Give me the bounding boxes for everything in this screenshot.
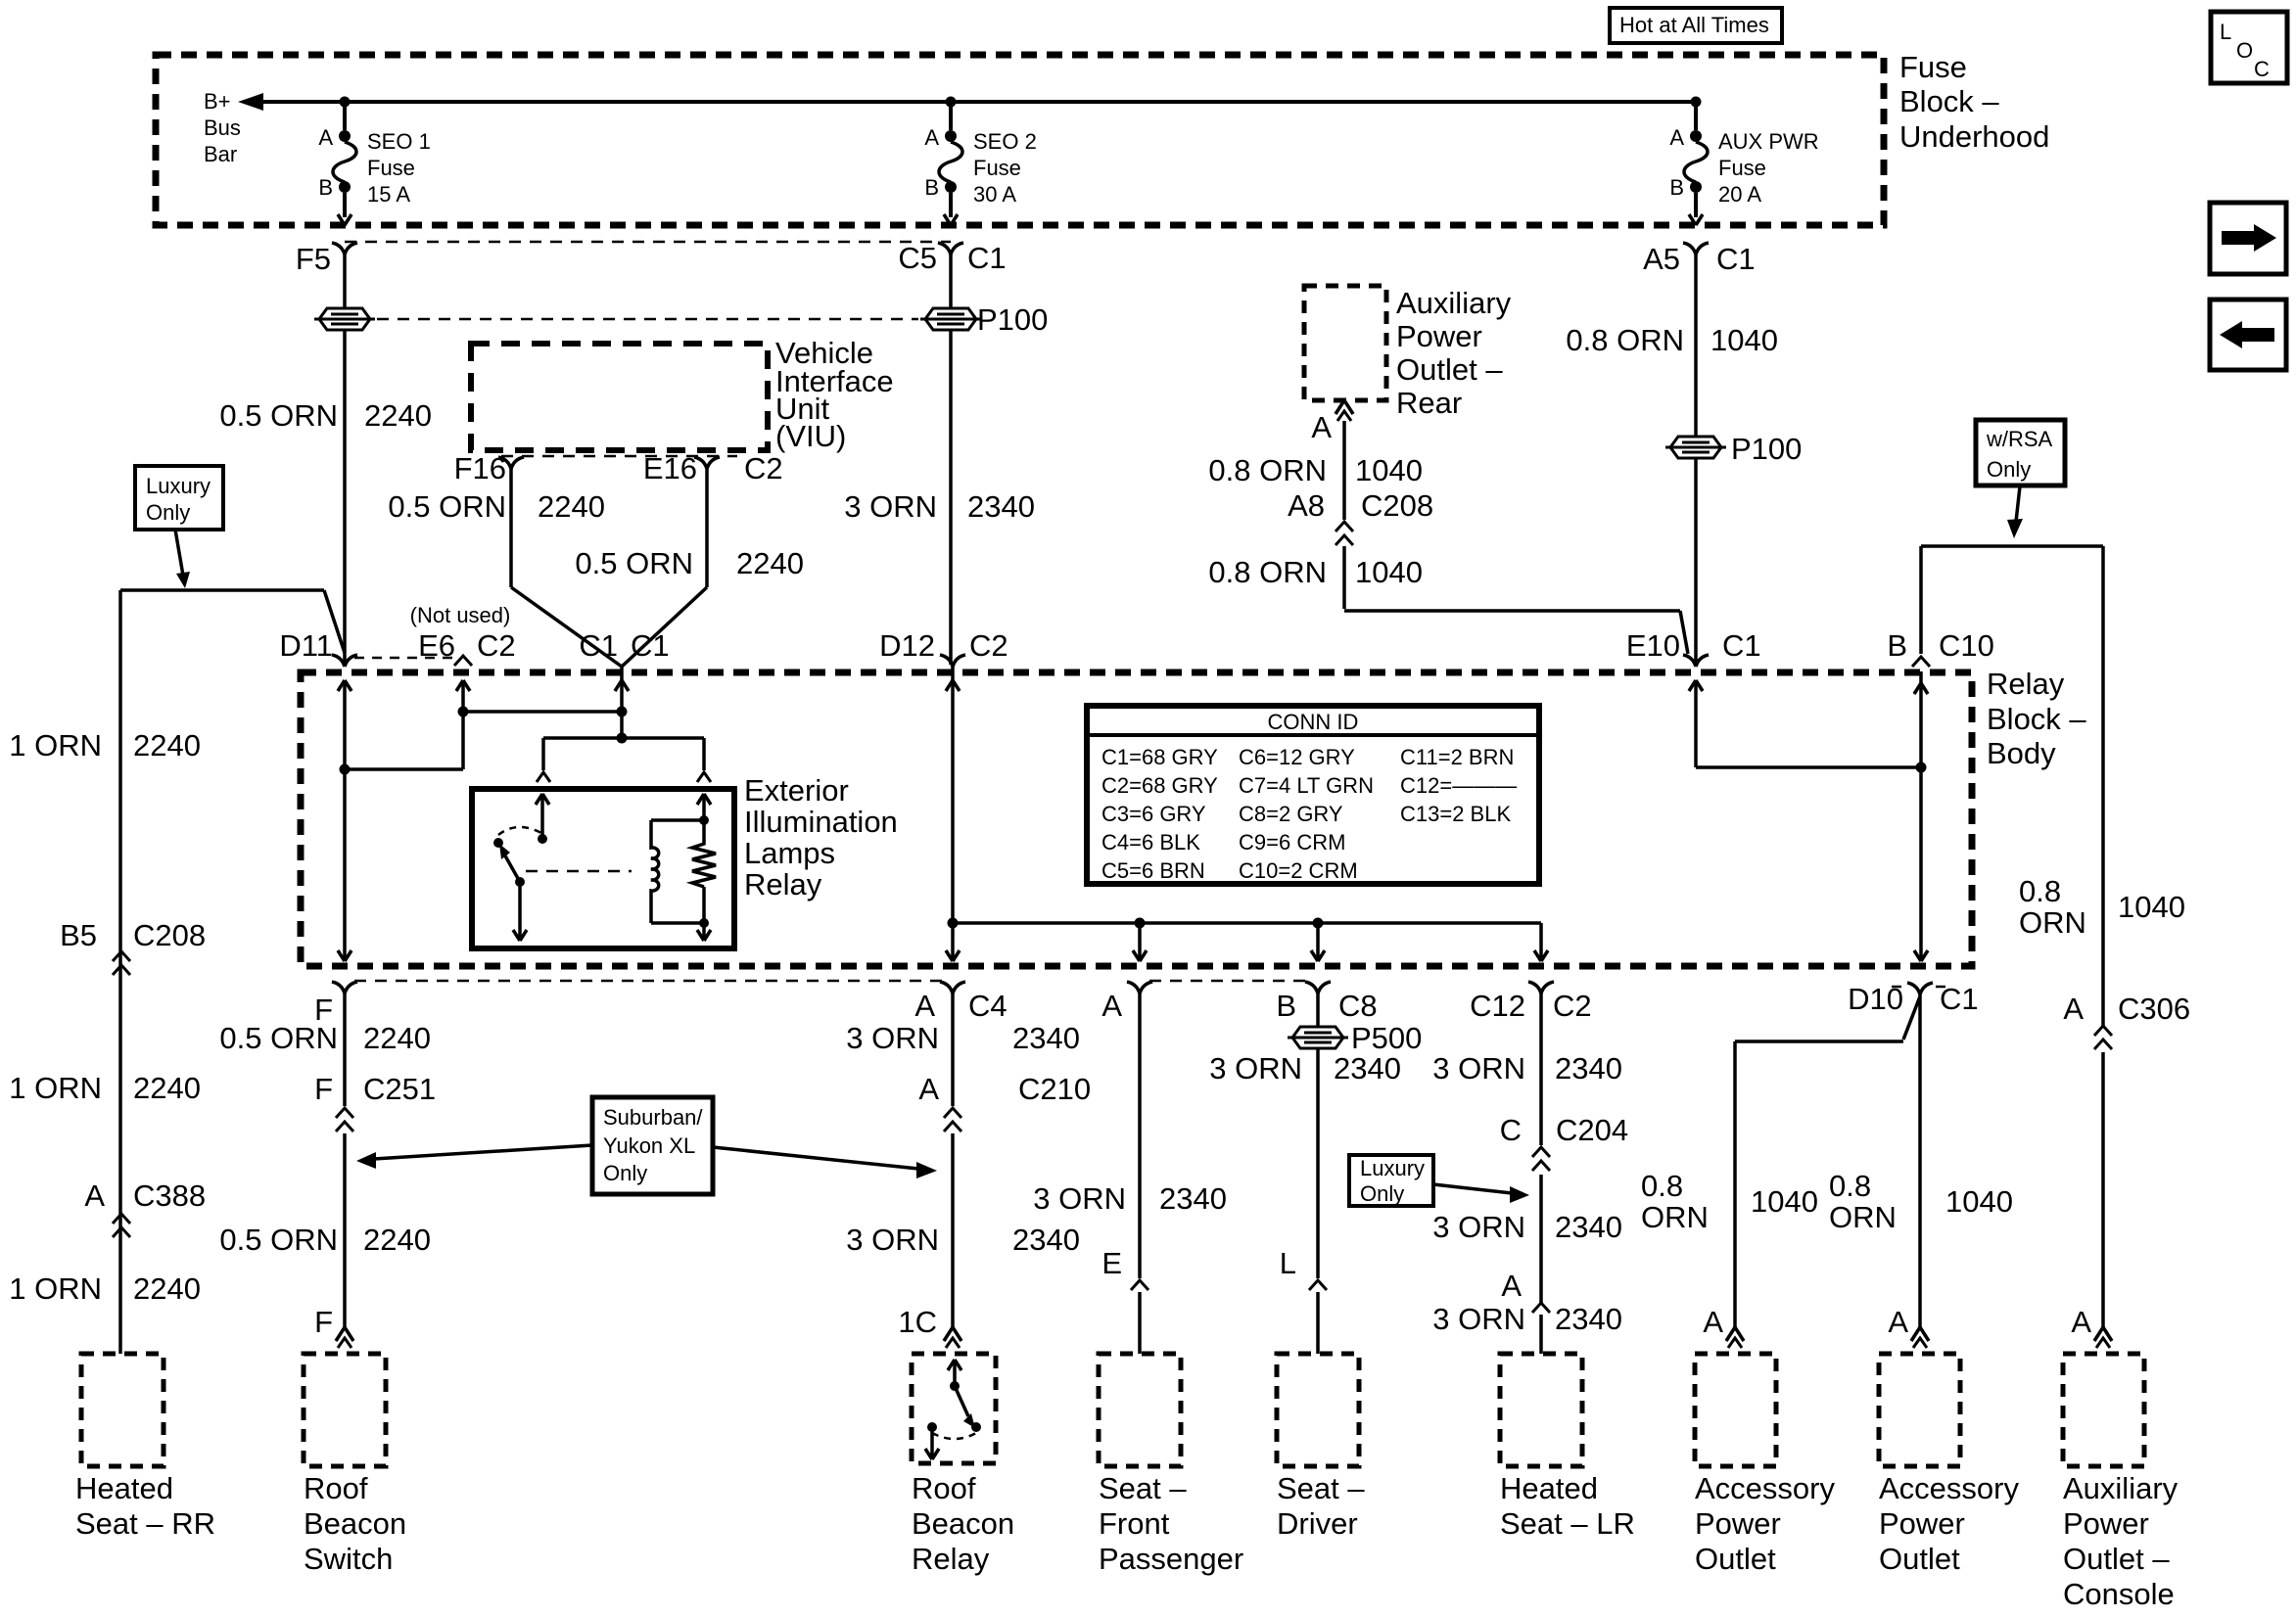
svg-text:A: A	[1501, 1269, 1522, 1303]
svg-text:CONN ID: CONN ID	[1268, 710, 1359, 734]
junction coil top	[699, 815, 709, 825]
pin arrow B C10 (up)	[1914, 683, 1928, 694]
junction on bus at SEO 2	[946, 97, 957, 108]
connector pin 1C (roof beacon relay)	[898, 1305, 961, 1348]
svg-text:C2: C2	[1553, 989, 1592, 1023]
svg-text:F5: F5	[296, 242, 331, 276]
svg-text:3 ORN: 3 ORN	[1033, 1181, 1126, 1216]
connector F5 C1	[296, 242, 357, 276]
label Accessory Power Outlet 1	[1695, 1471, 1835, 1576]
svg-text:1040: 1040	[1945, 1184, 2013, 1219]
roof beacon relay travel arc	[932, 1433, 976, 1439]
connector pin A (outlet 2)	[1888, 1305, 1929, 1348]
svg-text:E10: E10	[1626, 628, 1680, 663]
label Auxiliary Power Outlet - Rear	[1396, 286, 1512, 420]
connector face line (bottom row left)	[354, 980, 943, 983]
svg-text:P100: P100	[977, 302, 1048, 337]
relay pin 2 rail	[697, 794, 711, 941]
svg-text:C12=———: C12=———	[1400, 773, 1517, 798]
svg-text:20 A: 20 A	[1718, 182, 1761, 207]
wire C5 to P100	[949, 254, 953, 308]
svg-text:Heated: Heated	[75, 1471, 173, 1505]
svg-text:C5=6 BRN: C5=6 BRN	[1101, 858, 1205, 883]
svg-text:Relay: Relay	[912, 1542, 990, 1576]
connector pin A (console outlet)	[2071, 1305, 2112, 1348]
svg-text:Yukon XL: Yukon XL	[603, 1133, 695, 1158]
svg-text:B: B	[318, 175, 333, 200]
svg-text:A: A	[2071, 1305, 2091, 1339]
connector P100 (left)	[314, 308, 375, 330]
connector F C251	[314, 1072, 436, 1132]
svg-text:C3=6 GRY: C3=6 GRY	[1101, 802, 1206, 826]
svg-text:2240: 2240	[538, 489, 605, 524]
LOC reference box	[2211, 12, 2287, 83]
svg-text:B: B	[924, 175, 939, 200]
svg-text:Relay: Relay	[1987, 667, 2065, 701]
svg-text:Suburban/: Suburban/	[603, 1105, 703, 1130]
svg-text:Power: Power	[1396, 319, 1482, 353]
label Roof Beacon Relay	[912, 1471, 1014, 1576]
svg-text:Rear: Rear	[1396, 386, 1462, 420]
relay switch common pin	[536, 794, 549, 844]
connector P500	[1288, 1021, 1422, 1055]
svg-text:C1: C1	[1716, 242, 1756, 276]
wire C210 3 ORN 2340 (lower)	[846, 1133, 1080, 1327]
svg-text:3 ORN: 3 ORN	[844, 489, 937, 524]
svg-text:0.5 ORN: 0.5 ORN	[219, 1021, 338, 1055]
connector A C4	[914, 982, 1007, 1023]
svg-text:0.5 ORN: 0.5 ORN	[388, 489, 506, 524]
svg-text:C2=68 GRY: C2=68 GRY	[1101, 773, 1218, 798]
svg-text:C9=6 CRM: C9=6 CRM	[1239, 830, 1345, 855]
svg-text:0.5 ORN: 0.5 ORN	[575, 546, 693, 580]
junction on bus at AUX PWR	[1691, 97, 1702, 108]
svg-text:0.8 ORN: 0.8 ORN	[1566, 323, 1684, 357]
svg-text:2240: 2240	[133, 728, 201, 762]
relay switch travel arc	[498, 827, 541, 835]
component Accessory Power Outlet 2 (dashed box)	[1879, 1354, 1960, 1466]
connector A8 C208	[1288, 488, 1433, 545]
svg-text:F: F	[314, 1072, 333, 1106]
junction D11 branch	[340, 764, 351, 775]
svg-text:Outlet –: Outlet –	[1396, 352, 1503, 387]
wire heated seat RR feed 1 ORN 2240 (upper)	[9, 590, 201, 1354]
fuse SEO 2 30 A	[924, 102, 1037, 225]
connector D10 C1	[1848, 982, 1979, 1016]
svg-text:C208: C208	[133, 918, 206, 952]
svg-text:2240: 2240	[736, 546, 804, 580]
roof beacon relay contact right	[971, 1422, 981, 1432]
label Vehicle Interface Unit (VIU)	[775, 336, 894, 453]
vehicle interface unit VIU (dashed box)	[471, 344, 768, 450]
svg-text:15 A: 15 A	[367, 182, 410, 207]
svg-text:Only: Only	[603, 1161, 647, 1185]
svg-text:30 A: 30 A	[973, 182, 1016, 207]
svg-text:0.5 ORN: 0.5 ORN	[219, 1223, 338, 1257]
svg-text:A: A	[1888, 1305, 1908, 1339]
svg-text:C4=6 BLK: C4=6 BLK	[1101, 830, 1200, 855]
svg-text:Exterior: Exterior	[744, 773, 849, 808]
connector pin F (roof beacon switch)	[314, 1305, 353, 1348]
svg-text:F16: F16	[454, 451, 506, 485]
svg-text:D12: D12	[879, 628, 935, 663]
svg-text:C8=2 GRY: C8=2 GRY	[1239, 802, 1343, 826]
arrow from Luxury Only	[175, 530, 190, 588]
svg-text:C6=12 GRY: C6=12 GRY	[1239, 745, 1355, 769]
svg-text:Outlet: Outlet	[1879, 1542, 1960, 1576]
svg-text:C2: C2	[969, 628, 1008, 663]
wire distribution bus	[953, 921, 1541, 925]
svg-text:F: F	[314, 1305, 333, 1339]
roof beacon relay switch common	[948, 1360, 961, 1391]
svg-text:L: L	[1280, 1246, 1296, 1280]
svg-text:O: O	[2236, 38, 2253, 63]
connector F (roof beacon sw)	[314, 982, 357, 1027]
component Accessory Power Outlet 1 (dashed box)	[1695, 1354, 1776, 1466]
component Roof Beacon Relay (dashed box)	[912, 1354, 996, 1463]
label Relay Block - Body	[1987, 667, 2086, 770]
component Auxiliary Power Outlet - Rear (dashed box)	[1304, 286, 1386, 400]
svg-text:Power: Power	[1695, 1506, 1781, 1541]
wire A 3 ORN 2340 (seat front pass)	[1033, 993, 1227, 1278]
svg-text:3 ORN: 3 ORN	[1209, 1051, 1302, 1086]
svg-text:C388: C388	[133, 1178, 206, 1213]
svg-text:B: B	[1276, 989, 1296, 1023]
wire B C10 rail	[1914, 671, 1928, 961]
label Luxury Only (right)	[1349, 1155, 1433, 1206]
junction B C10 rail	[1916, 762, 1927, 773]
connector pin A (heated seat LR)	[1501, 1269, 1550, 1313]
svg-text:1040: 1040	[1355, 555, 1423, 589]
junction coil bottom	[699, 918, 709, 928]
fuse SEO 1 15 A	[318, 102, 431, 225]
svg-text:Auxiliary: Auxiliary	[1396, 286, 1512, 320]
label Seat - Front Passenger	[1099, 1471, 1243, 1576]
junction drop A (seat front passenger)	[1135, 918, 1146, 929]
svg-text:B+: B+	[204, 89, 231, 114]
junction on bus at SEO 1	[340, 97, 351, 108]
svg-text:3 ORN: 3 ORN	[1432, 1210, 1525, 1244]
svg-text:2240: 2240	[364, 398, 432, 433]
connector face line (bottom row mid)	[1149, 980, 1308, 983]
svg-text:1040: 1040	[1355, 453, 1423, 487]
svg-text:2340: 2340	[967, 489, 1035, 524]
svg-text:Switch: Switch	[304, 1542, 393, 1576]
svg-text:Fuse: Fuse	[367, 156, 415, 180]
pin arrow D11 (up)	[338, 680, 351, 691]
label Roof Beacon Switch	[304, 1471, 406, 1576]
svg-text:C: C	[2254, 57, 2270, 81]
svg-text:Body: Body	[1987, 736, 2056, 770]
component Auxiliary Power Outlet - Console (dashed box)	[2063, 1354, 2144, 1466]
page arrow left box	[2210, 300, 2286, 370]
svg-text:E16: E16	[643, 451, 697, 485]
svg-text:Fuse: Fuse	[973, 156, 1021, 180]
svg-text:B: B	[1887, 628, 1907, 663]
arrow to roof beacon relay wire	[713, 1147, 937, 1178]
wire aux rear 0.8 ORN 1040 (upper)	[1208, 421, 1423, 520]
roof beacon relay contact left	[927, 1422, 937, 1432]
connector P100 (right)	[920, 302, 1048, 337]
svg-text:A: A	[914, 989, 935, 1023]
connector pin E (seat front pass)	[1101, 1246, 1148, 1290]
label Accessory Power Outlet 2	[1879, 1471, 2019, 1576]
svg-text:Beacon: Beacon	[304, 1506, 406, 1541]
svg-text:1 ORN: 1 ORN	[9, 728, 102, 762]
wire C306 to console outlet	[2101, 1052, 2105, 1329]
fuse AUX PWR 20 A	[1669, 102, 1818, 225]
label Hot at All Times	[1610, 8, 1782, 43]
connector E10 C1	[1626, 628, 1761, 667]
connector D11 C2	[279, 628, 357, 667]
component Seat - Driver (dashed box)	[1277, 1354, 1359, 1466]
wire F5 to P100	[343, 254, 347, 308]
wire P500 3 ORN 2340	[1209, 1048, 1401, 1278]
wire P100 to E10	[1694, 458, 1698, 665]
label Exterior Illumination Lamps Relay	[744, 773, 898, 901]
svg-text:Bus: Bus	[204, 115, 241, 140]
junction E6 crosslink	[458, 707, 469, 717]
junction C1 split	[617, 733, 628, 744]
connector P100 (aux pwr)	[1665, 432, 1802, 466]
svg-text:2340: 2340	[1012, 1223, 1080, 1257]
svg-text:C4: C4	[968, 989, 1007, 1023]
wire drop to C12 C2	[1534, 923, 1548, 961]
svg-text:Outlet: Outlet	[1695, 1542, 1776, 1576]
wire D10 jog to outlet 1	[1735, 996, 1920, 1041]
junction D12 distribution	[948, 918, 959, 929]
connector caret relay pin 2	[697, 772, 711, 782]
label Suburban/Yukon XL Only	[592, 1097, 713, 1194]
connector E16 C2	[643, 451, 783, 485]
svg-text:ORN: ORN	[2019, 905, 2086, 940]
relay switch blade	[499, 844, 525, 887]
svg-text:C1: C1	[1940, 982, 1979, 1016]
svg-text:P100: P100	[1731, 432, 1802, 466]
svg-text:Accessory: Accessory	[1879, 1471, 2019, 1505]
relay block - body (dashed enclosure)	[301, 672, 1972, 966]
connector B C8	[1276, 982, 1377, 1023]
connector C C204	[1500, 1113, 1629, 1171]
svg-text:2340: 2340	[1334, 1051, 1401, 1086]
svg-text:C2: C2	[744, 451, 783, 485]
label Luxury Only (left)	[135, 466, 223, 530]
svg-text:Fuse: Fuse	[1899, 50, 1967, 84]
svg-text:1C: 1C	[898, 1305, 937, 1339]
svg-text:Auxiliary: Auxiliary	[2063, 1471, 2179, 1505]
connector face line C2 fragment	[354, 657, 452, 660]
svg-text:2340: 2340	[1555, 1302, 1622, 1336]
wire E to seat front pass	[1138, 1292, 1142, 1354]
svg-text:Roof: Roof	[912, 1471, 976, 1505]
svg-text:Roof: Roof	[304, 1471, 368, 1505]
svg-text:2340: 2340	[1012, 1021, 1080, 1055]
svg-text:C: C	[1500, 1113, 1522, 1147]
svg-text:Heated: Heated	[1500, 1471, 1598, 1505]
svg-text:Bar: Bar	[204, 142, 237, 166]
svg-text:C1: C1	[579, 628, 618, 663]
wire E16 leg 0.5 ORN 2240	[575, 469, 804, 667]
wire P100 dashed link	[377, 318, 918, 321]
label w/RSA Only	[1976, 420, 2065, 485]
svg-text:Only: Only	[1360, 1181, 1404, 1206]
svg-text:A: A	[918, 1072, 939, 1106]
svg-text:3 ORN: 3 ORN	[1432, 1302, 1525, 1336]
connector A C388	[84, 1178, 206, 1237]
svg-text:Driver: Driver	[1277, 1506, 1358, 1541]
wire P100 to D12 3 ORN 2340	[844, 330, 1035, 665]
svg-text:Seat –: Seat –	[1277, 1471, 1365, 1505]
svg-text:A: A	[2063, 992, 2084, 1026]
svg-text:P500: P500	[1351, 1021, 1422, 1055]
wire crosslink E6 to C1	[463, 710, 622, 714]
svg-text:C251: C251	[363, 1072, 436, 1106]
junction C1 crosslink	[617, 707, 628, 717]
label Fuse Block - Underhood	[1899, 50, 2049, 154]
svg-text:A5: A5	[1643, 242, 1680, 276]
svg-text:Seat – RR: Seat – RR	[75, 1506, 215, 1541]
wire accessory outlet 2 0.8 ORN 1040	[1829, 994, 2013, 1329]
svg-text:B: B	[1669, 175, 1684, 200]
svg-text:AUX PWR: AUX PWR	[1718, 129, 1819, 154]
svg-text:E: E	[1101, 1246, 1122, 1280]
connector pin A (outlet 1)	[1703, 1305, 1744, 1348]
wire drop to B C8	[1311, 923, 1325, 961]
connector caret relay pin 1	[537, 772, 550, 782]
connector D12 C2	[879, 628, 1008, 667]
arrow from w/RSA Only	[2007, 486, 2023, 538]
wire A 3 ORN 2340 to heated seat LR	[1432, 1302, 1622, 1354]
svg-text:C7=4 LT GRN: C7=4 LT GRN	[1239, 773, 1374, 798]
label Auxiliary Power Outlet - Console	[2063, 1471, 2179, 1611]
svg-text:C10: C10	[1939, 628, 1994, 663]
connector C12 C2	[1470, 982, 1592, 1023]
fuse block - underhood (dashed enclosure)	[156, 55, 1884, 225]
svg-text:C2: C2	[477, 628, 516, 663]
svg-text:3 ORN: 3 ORN	[846, 1223, 939, 1257]
wire luxury branch to D11	[120, 590, 345, 653]
svg-text:Lamps: Lamps	[744, 836, 835, 870]
relay switch fixed contact	[493, 838, 503, 848]
relay coil	[651, 820, 704, 923]
connector face line C2 under VIU	[501, 455, 737, 458]
svg-text:(Not used): (Not used)	[410, 603, 511, 627]
svg-text:Power: Power	[2063, 1506, 2149, 1541]
connector pin A (aux rear)	[1311, 400, 1353, 444]
svg-text:1 ORN: 1 ORN	[9, 1271, 102, 1306]
table CONN ID	[1087, 706, 1539, 884]
svg-text:C1: C1	[967, 241, 1007, 275]
svg-text:Fuse: Fuse	[1718, 156, 1766, 180]
wire C4 3 ORN 2340 (upper)	[846, 993, 1080, 1106]
svg-text:Only: Only	[146, 500, 190, 525]
svg-text:C11=2 BRN: C11=2 BRN	[1400, 745, 1514, 769]
connector C1 C1 (merge)	[579, 628, 669, 663]
wire F16 leg 0.5 ORN 2240	[388, 469, 622, 667]
svg-text:0.8 ORN: 0.8 ORN	[1208, 453, 1327, 487]
connector A C210	[918, 1072, 1091, 1132]
svg-text:Console: Console	[2063, 1577, 2175, 1611]
wire aux rear 0.8 ORN 1040 (lower)	[1208, 546, 1688, 654]
wire C204 3 ORN 2340	[1432, 1175, 1622, 1303]
wire accessory outlet 1 0.8 ORN 1040	[1641, 1041, 1818, 1329]
connector B C10	[1887, 628, 1994, 667]
svg-text:C10=2 CRM: C10=2 CRM	[1239, 858, 1358, 883]
connector A C306	[2063, 992, 2190, 1049]
svg-text:1040: 1040	[1751, 1184, 1818, 1219]
svg-text:1040: 1040	[1710, 323, 1778, 357]
wire drop to A	[1133, 923, 1147, 961]
svg-text:A: A	[1703, 1305, 1723, 1339]
svg-text:A8: A8	[1288, 488, 1325, 523]
wire E10 jog to B C10	[1696, 680, 1921, 767]
svg-text:Seat – LR: Seat – LR	[1500, 1506, 1635, 1541]
svg-text:A: A	[1669, 125, 1684, 150]
connector B5 C208	[60, 918, 206, 975]
wire B C8 to P500	[1316, 993, 1320, 1027]
relay switch output wire	[513, 882, 527, 941]
svg-text:0.8: 0.8	[1641, 1169, 1683, 1203]
arrow from Luxury Only (right)	[1433, 1184, 1529, 1203]
svg-text:C1: C1	[631, 628, 670, 663]
page arrow right box	[2210, 203, 2286, 274]
svg-text:2240: 2240	[363, 1021, 431, 1055]
svg-text:Only: Only	[1987, 457, 2031, 482]
svg-text:Beacon: Beacon	[912, 1506, 1014, 1541]
svg-text:Block –: Block –	[1987, 702, 2086, 736]
relay actuation dashed link	[526, 870, 632, 873]
relay coil suppressor resistor	[692, 820, 716, 887]
svg-text:C306: C306	[2118, 992, 2190, 1026]
svg-text:Seat –: Seat –	[1099, 1471, 1187, 1505]
svg-text:2240: 2240	[363, 1223, 431, 1257]
svg-text:1 ORN: 1 ORN	[9, 1071, 102, 1105]
wire E6 rail	[347, 680, 470, 769]
svg-text:D11: D11	[279, 628, 333, 663]
svg-text:Front: Front	[1099, 1506, 1170, 1541]
svg-text:SEO 1: SEO 1	[367, 129, 431, 154]
svg-text:Block –: Block –	[1899, 84, 1999, 118]
wire A5 to P100 0.8 ORN 1040	[1566, 254, 1778, 437]
junction drop B C8	[1313, 918, 1324, 929]
svg-text:0.8 ORN: 0.8 ORN	[1208, 555, 1327, 589]
wire L to seat driver	[1316, 1292, 1320, 1354]
component Heated Seat - RR (dashed box)	[81, 1354, 164, 1466]
svg-text:C13=2 BLK: C13=2 BLK	[1400, 802, 1511, 826]
label 0.8 ORN 1040 (console)	[2019, 874, 2185, 940]
wire C1 rail	[615, 667, 629, 738]
connector C5 C1	[898, 241, 1006, 275]
wire F 0.5 ORN 2240 (lower)	[219, 1133, 431, 1327]
svg-text:Relay: Relay	[744, 867, 822, 901]
svg-text:Illumination: Illumination	[744, 805, 898, 839]
connector A5 C1	[1643, 242, 1756, 276]
wire C12 3 ORN 2340	[1432, 993, 1622, 1145]
svg-text:Passenger: Passenger	[1099, 1542, 1243, 1576]
arrow to roof beacon switch wire	[356, 1145, 592, 1169]
svg-text:2340: 2340	[1159, 1181, 1227, 1216]
svg-text:(VIU): (VIU)	[775, 419, 846, 453]
wire relay feed bracket	[543, 738, 704, 770]
component Heated Seat - LR (dashed box)	[1500, 1354, 1582, 1466]
svg-text:2240: 2240	[133, 1271, 201, 1306]
svg-text:Luxury: Luxury	[146, 474, 211, 498]
svg-text:C8: C8	[1338, 989, 1378, 1023]
wire w/RSA loop	[1921, 546, 2103, 1026]
wire P100 to D11 0.5 ORN 2240	[219, 330, 432, 665]
roof beacon relay output	[925, 1427, 939, 1459]
svg-text:Hot at All Times: Hot at All Times	[1619, 13, 1769, 37]
